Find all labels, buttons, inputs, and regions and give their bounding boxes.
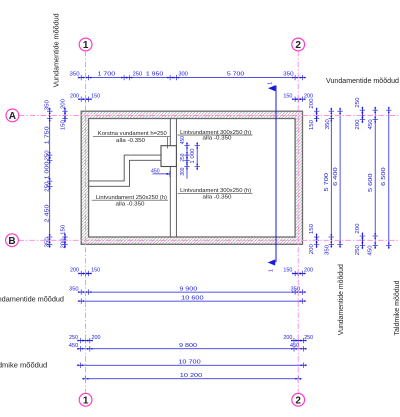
svg-text:150: 150	[309, 119, 315, 130]
right chain R4 6500	[388, 107, 390, 249]
svg-text:Taldmike mõõdud: Taldmike mõõdud	[0, 362, 47, 369]
svg-text:1 700: 1 700	[97, 72, 116, 78]
svg-text:200: 200	[70, 268, 80, 274]
svg-text:200: 200	[283, 335, 293, 341]
chimney dim 1000	[196, 142, 198, 170]
svg-text:450: 450	[180, 136, 186, 144]
svg-text:250: 250	[355, 244, 361, 255]
interior foundation wall	[169, 119, 171, 238]
right chain R3 450/5600/450	[374, 107, 376, 249]
svg-text:250: 250	[180, 153, 186, 161]
svg-text:200: 200	[92, 335, 102, 341]
left chain 350/1750/250/1000/250/2450/350	[49, 108, 51, 248]
dim row 10200	[82, 378, 301, 380]
dim row 10700	[77, 364, 307, 366]
axis line A	[19, 114, 400, 116]
svg-text:1 950: 1 950	[146, 72, 164, 78]
svg-text:10 700: 10 700	[178, 359, 201, 365]
svg-text:150: 150	[309, 223, 315, 234]
svg-text:150: 150	[91, 93, 101, 99]
svg-text:150: 150	[91, 268, 101, 274]
wall inner edge	[89, 119, 296, 238]
svg-text:450: 450	[69, 343, 79, 349]
svg-text:9 800: 9 800	[179, 343, 198, 349]
svg-text:6 500: 6 500	[381, 166, 387, 185]
right chain R1 350/5700/350	[330, 108, 332, 248]
axis line B	[18, 239, 400, 241]
svg-text:200: 200	[309, 243, 315, 254]
svg-text:2: 2	[295, 40, 301, 51]
svg-text:200: 200	[355, 223, 361, 234]
section marker top	[268, 85, 275, 91]
svg-text:200: 200	[355, 119, 361, 130]
svg-text:Korstna vundament h=250: Korstna vundament h=250	[98, 131, 167, 137]
axis bubble 1	[79, 393, 92, 406]
svg-text:350: 350	[69, 286, 79, 292]
svg-text:200: 200	[304, 93, 314, 99]
svg-text:150: 150	[283, 93, 293, 99]
svg-text:Taldmike mõõdud: Taldmike mõõdud	[394, 280, 400, 335]
outer foundation wall band (hatched)	[81, 111, 302, 244]
svg-text:1: 1	[83, 40, 89, 51]
chimney foundation block (Korstna vundament)	[161, 146, 176, 167]
svg-text:450: 450	[368, 245, 374, 256]
right stub chain 250/200 (taldmik)	[361, 107, 363, 123]
svg-text:5 700: 5 700	[324, 172, 330, 191]
axis bubble 2	[292, 38, 305, 51]
svg-text:1 000: 1 000	[190, 148, 196, 163]
svg-text:250: 250	[355, 97, 361, 108]
right stub chain 200/150	[316, 108, 318, 122]
svg-text:9 900: 9 900	[179, 286, 198, 292]
dim 450 horizontal	[153, 173, 170, 175]
svg-text:1 000: 1 000	[44, 161, 50, 180]
axis bubble 2	[292, 393, 305, 406]
svg-text:10 200: 10 200	[180, 373, 203, 379]
bottom 250/200 stubs (taldmik)	[77, 340, 93, 342]
svg-text:350: 350	[325, 244, 331, 255]
svg-text:250: 250	[69, 335, 79, 341]
dim row 350/9900/350	[78, 291, 306, 293]
svg-text:250: 250	[44, 150, 50, 161]
svg-text:200: 200	[304, 268, 314, 274]
svg-text:2 450: 2 450	[44, 204, 50, 223]
svg-text:10 600: 10 600	[181, 295, 204, 301]
svg-text:250: 250	[44, 181, 50, 192]
svg-text:1: 1	[268, 82, 274, 85]
svg-text:Vundamentide mõõdud: Vundamentide mõõdud	[0, 296, 64, 303]
section line 1-1	[275, 86, 277, 263]
dim row 10600	[78, 300, 306, 302]
svg-text:350: 350	[325, 119, 331, 130]
svg-text:350: 350	[44, 99, 50, 110]
svg-text:350: 350	[291, 286, 301, 292]
left stub chain 200/150	[64, 108, 66, 122]
svg-text:200: 200	[60, 98, 66, 109]
stepped strip foundation (Lintvundament 250x250)	[89, 155, 161, 181]
svg-text:alla -0.350: alla -0.350	[116, 138, 145, 144]
svg-text:450: 450	[368, 119, 374, 130]
axis bubble 1	[79, 38, 92, 51]
svg-text:A: A	[9, 111, 16, 122]
dim row 450/9800/450	[77, 348, 307, 350]
wall outer edge	[81, 111, 302, 244]
chimney dim 450/250/300	[186, 142, 188, 178]
svg-text:250: 250	[304, 335, 314, 341]
axis bubble A	[6, 109, 19, 122]
svg-text:450: 450	[151, 169, 160, 175]
svg-text:alla -0.350: alla -0.350	[203, 136, 232, 142]
svg-text:350: 350	[44, 237, 50, 248]
svg-text:Vundamentide mõõdud: Vundamentide mõõdud	[338, 264, 345, 335]
svg-text:350: 350	[283, 72, 294, 78]
top dim chain 350/1700/250/1950/300/5700/350	[78, 77, 306, 79]
bottom 200/150 stubs	[78, 273, 92, 275]
svg-text:250: 250	[133, 72, 143, 78]
svg-text:200: 200	[309, 98, 315, 109]
svg-text:150: 150	[60, 224, 66, 235]
svg-text:150: 150	[60, 119, 66, 130]
svg-text:alla -0.350: alla -0.350	[203, 194, 232, 200]
axis bubble B	[6, 234, 19, 247]
svg-text:B: B	[8, 236, 15, 247]
svg-text:1 750: 1 750	[44, 125, 50, 144]
svg-text:300: 300	[178, 72, 188, 78]
svg-text:Vundamentide mõõdud: Vundamentide mõõdud	[54, 13, 61, 87]
svg-text:6 400: 6 400	[333, 166, 339, 185]
svg-text:5 700: 5 700	[227, 72, 245, 78]
axis line 1	[85, 51, 87, 393]
svg-text:150: 150	[283, 268, 293, 274]
section marker bottom	[268, 259, 276, 265]
axis line 2	[297, 51, 299, 393]
svg-text:5 600: 5 600	[368, 173, 374, 192]
svg-text:200: 200	[60, 238, 66, 249]
svg-text:1: 1	[269, 269, 275, 272]
svg-text:alla -0.350: alla -0.350	[116, 201, 145, 207]
svg-text:350: 350	[70, 72, 81, 78]
top 200/150 stubs	[78, 98, 92, 100]
svg-text:1: 1	[83, 395, 89, 406]
svg-text:300: 300	[180, 167, 186, 175]
svg-text:Vundamentide mõõdud: Vundamentide mõõdud	[326, 78, 399, 85]
svg-text:2: 2	[295, 395, 301, 406]
svg-text:200: 200	[70, 93, 80, 99]
right chain R2 6400	[339, 108, 341, 248]
